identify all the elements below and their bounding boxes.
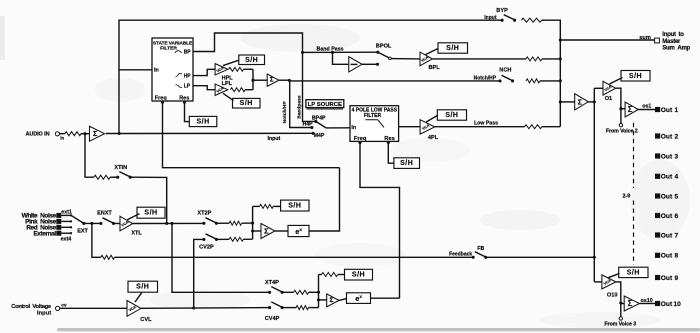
svg-text:In: In [351, 125, 356, 131]
svg-text:Res: Res [384, 136, 395, 142]
svg-text:Freq: Freq [354, 136, 367, 142]
svg-text:Out: Out [661, 253, 673, 260]
svg-text:in: in [60, 135, 64, 140]
svg-text:BYP: BYP [496, 8, 508, 14]
svg-text:7: 7 [675, 232, 679, 239]
svg-text:From Voice 3: From Voice 3 [604, 322, 636, 328]
svg-text:Out: Out [661, 232, 673, 239]
svg-text:Input to: Input to [662, 32, 684, 38]
svg-text:os10: os10 [641, 298, 653, 304]
svg-text:Out: Out [661, 275, 673, 282]
svg-text:Input: Input [37, 311, 51, 317]
svg-text:Out: Out [661, 153, 673, 160]
svg-text:External: External [33, 230, 56, 237]
svg-text:NCH: NCH [499, 68, 511, 74]
svg-text:9: 9 [675, 275, 679, 282]
svg-text:4: 4 [675, 174, 679, 181]
svg-text:Out: Out [661, 301, 673, 308]
svg-text:EXT: EXT [77, 228, 88, 234]
svg-text:S/H: S/H [445, 112, 458, 119]
svg-text:FILTER: FILTER [364, 113, 382, 119]
svg-text:cv: cv [61, 303, 67, 308]
svg-text:CV2P: CV2P [199, 245, 214, 251]
svg-text:Low Pass: Low Pass [474, 121, 498, 127]
svg-text:Master: Master [662, 39, 681, 45]
svg-text:S/H: S/H [288, 203, 301, 210]
svg-text:sum: sum [639, 35, 651, 41]
svg-text:Notch/HP: Notch/HP [474, 76, 497, 82]
svg-text:Out: Out [661, 107, 673, 114]
svg-text:XT2P: XT2P [197, 211, 211, 217]
svg-text:O10: O10 [607, 292, 618, 298]
svg-text:S/H: S/H [245, 57, 258, 64]
svg-text:FILTER: FILTER [160, 46, 177, 52]
svg-text:S/H: S/H [400, 160, 413, 167]
svg-text:2: 2 [675, 133, 679, 140]
svg-text:2-9: 2-9 [623, 193, 631, 199]
svg-text:S/H: S/H [144, 210, 157, 217]
svg-text:S/H: S/H [352, 272, 365, 279]
svg-text:ext4: ext4 [61, 236, 72, 242]
svg-text:Res: Res [179, 96, 189, 102]
svg-text:4PL: 4PL [428, 135, 439, 141]
svg-text:ENXT: ENXT [97, 210, 112, 216]
svg-text:Σ: Σ [578, 97, 583, 106]
svg-text:S/H: S/H [446, 45, 459, 52]
svg-text:os1: os1 [642, 103, 651, 109]
svg-text:x: x [299, 227, 302, 232]
svg-text:In: In [154, 68, 159, 74]
svg-text:1: 1 [675, 107, 679, 114]
svg-text:Σ: Σ [93, 129, 98, 138]
svg-text:Σ: Σ [270, 77, 274, 84]
svg-text:XTIN: XTIN [114, 165, 127, 171]
svg-text:Notch/HP: Notch/HP [282, 101, 288, 124]
svg-text:Feedback: Feedback [449, 252, 472, 258]
svg-text:S/H: S/H [629, 73, 642, 80]
svg-text:x: x [359, 294, 362, 299]
svg-text:CVL: CVL [140, 317, 152, 323]
svg-text:XT4P: XT4P [265, 280, 279, 286]
svg-text:10: 10 [674, 301, 682, 308]
svg-text:Out: Out [661, 174, 673, 181]
svg-text:Control Voltage: Control Voltage [11, 304, 52, 310]
svg-text:Band Pass: Band Pass [317, 46, 344, 52]
svg-text:Σ: Σ [264, 227, 269, 236]
svg-text:Out: Out [661, 133, 673, 140]
svg-text:Sum Amp: Sum Amp [662, 46, 690, 52]
svg-text:FB: FB [477, 246, 484, 252]
svg-text:CV4P: CV4P [265, 316, 280, 322]
svg-text:HP: HP [184, 74, 192, 80]
svg-text:BPL: BPL [429, 65, 441, 71]
svg-text:5: 5 [675, 193, 679, 200]
svg-text:O1: O1 [605, 96, 612, 102]
svg-text:AUDIO IN: AUDIO IN [26, 132, 50, 138]
svg-text:S/H: S/H [240, 100, 253, 107]
svg-text:Input: Input [268, 136, 281, 142]
svg-text:6: 6 [675, 213, 679, 220]
svg-text:S/H: S/H [196, 119, 209, 126]
svg-text:LP SOURCE: LP SOURCE [308, 102, 342, 108]
svg-text:BP4P: BP4P [312, 115, 326, 121]
svg-text:3: 3 [675, 153, 679, 160]
svg-text:Freq: Freq [155, 96, 167, 102]
svg-text:XTL: XTL [131, 231, 142, 237]
svg-text:M4P: M4P [314, 133, 325, 139]
svg-text:LPL: LPL [222, 81, 233, 87]
svg-text:8: 8 [675, 253, 679, 260]
svg-text:BPOL: BPOL [376, 43, 392, 49]
svg-text:S/H: S/H [136, 284, 149, 291]
svg-text:Out: Out [661, 213, 673, 220]
svg-text:LP: LP [184, 84, 191, 90]
svg-text:Σ: Σ [628, 105, 633, 114]
svg-text:Bandpass: Bandpass [296, 95, 302, 119]
svg-text:Σ: Σ [628, 299, 633, 308]
svg-text:STATE VARIABLE: STATE VARIABLE [153, 40, 193, 46]
svg-text:Σ: Σ [329, 297, 333, 304]
svg-text:Out: Out [661, 193, 673, 200]
svg-text:S/H: S/H [627, 269, 640, 276]
svg-text:Input: Input [484, 15, 497, 21]
svg-text:BP: BP [184, 50, 192, 56]
svg-text:ext1: ext1 [61, 209, 72, 215]
